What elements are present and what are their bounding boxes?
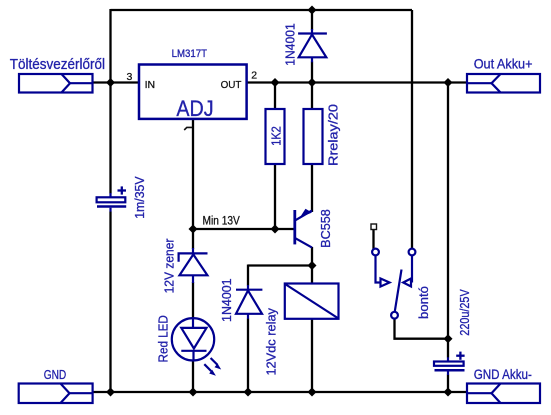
node Rrelay top [308,78,317,87]
wire relay top stub [311,266,313,284]
wire zener top stub [192,229,194,249]
node ADJ / zener [189,225,198,234]
node 1K2 top [271,78,280,87]
wire collector node to diode2 [248,264,312,266]
node bottom right rail [444,388,453,397]
wire input port to IN pin [92,81,139,83]
wire diode1 top stub [311,10,313,30]
svg-text:Out Akku+: Out Akku+ [474,56,533,72]
wire diode2 top stub [247,265,249,286]
svg-text:GND: GND [44,367,66,382]
wire OUT pin to Out Akku+ port [247,81,468,83]
wire right rail lower [447,375,449,394]
wire right vertical from top to switch [411,10,413,249]
node collector [308,261,317,270]
wire left rail lower [109,212,111,394]
svg-text:Red LED: Red LED [157,315,171,362]
wire diode2 bottom to rail [247,319,249,394]
svg-text:12Vdc relay: 12Vdc relay [264,307,278,375]
wire Rrelay bottom to emitter [311,164,313,212]
svg-text:3: 3 [126,71,132,83]
no-connect square [371,224,377,230]
wire right rail upper [447,83,449,358]
svg-text:12V zener: 12V zener [162,239,176,294]
svg-text:GND Akku-: GND Akku- [474,367,532,382]
svg-text:2: 2 [251,70,257,82]
svg-text:Min 13V: Min 13V [203,216,241,228]
wire 1K2 bottom to node [274,164,276,229]
svg-text:220u/25V: 220u/25V [458,289,472,336]
capacitor C1 1m/35V [97,186,127,211]
wire LED to bottom rail [192,360,194,393]
node 1K2 bottom [271,225,280,234]
diode D3 1N4001 (relay flyback) [236,285,262,319]
port GND Akku- [467,384,540,404]
port Out Akku+ [467,74,540,93]
resistor R2 Rrelay/20 [304,109,323,164]
wire top rail [111,9,413,11]
node top-diode1 [308,6,317,15]
wire zener to LED [192,282,194,318]
diode D2 12V zener [179,248,208,283]
node bottom LED [189,388,198,397]
node switch-rail [444,334,453,343]
port Töltésvezérlőről [19,74,93,93]
wire diode1 bottom stub [311,62,313,83]
svg-text:1m/35V: 1m/35V [133,176,147,219]
node left-rail / input [106,78,115,87]
wire bottom rail [92,391,467,393]
wire node Min13V horizontal [193,228,295,230]
diode D1 1N4001 top [298,29,327,62]
wire switch square stem [372,229,374,249]
svg-text:Rrelay/20: Rrelay/20 [327,104,341,166]
svg-text:LM317T: LM317T [172,48,208,60]
svg-text:BC558: BC558 [319,209,333,248]
svg-text:1N4001: 1N4001 [220,278,234,322]
node right rail top [444,78,453,87]
wire left rail upper [109,9,111,194]
svg-text:IN: IN [145,79,156,91]
wire ADJ pin down [192,119,194,229]
svg-text:bontó: bontó [417,286,431,319]
svg-text:Töltésvezérlőről: Töltésvezérlőről [10,57,105,73]
switch S1 bontó (relay contact) [372,249,415,319]
node bottom diode2 [244,388,253,397]
node bottom relay [308,388,317,397]
relay K1 12Vdc relay [285,284,339,319]
wire 1K2 top stub [274,83,276,110]
wire switch bottom to right rail [395,319,449,339]
svg-text:OUT: OUT [221,79,242,91]
LED Red LED [172,318,221,376]
port GND [19,384,93,404]
node bottom left rail [106,388,115,397]
pin number 1 (rotated) [184,127,192,130]
svg-text:1N4001: 1N4001 [284,23,298,65]
svg-text:1K2: 1K2 [269,126,283,146]
capacitor C2 220u/25V [434,352,465,375]
op-amp U1 LM317T box [139,65,247,119]
transistor Q1 BC558 [295,209,312,248]
wire relay bottom to rail [311,319,313,393]
resistor R1 1K2 [266,109,285,164]
wire collector down [311,247,313,266]
wire Rrelay top stub [311,83,313,110]
svg-text:ADJ: ADJ [176,96,213,121]
